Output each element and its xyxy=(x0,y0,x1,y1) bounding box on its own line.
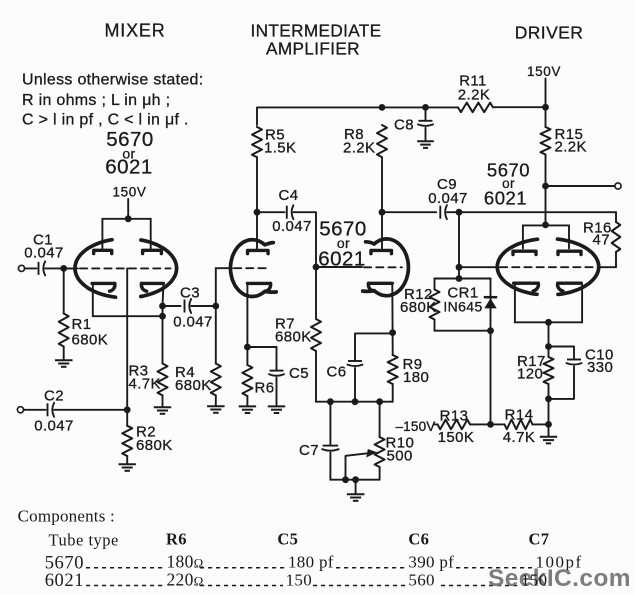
wire C6 to bottom rail xyxy=(354,368,356,402)
svg-text:180Ω: 180Ω xyxy=(167,551,204,571)
wire plate bus V4 xyxy=(523,224,569,226)
resistor R17 xyxy=(544,357,554,384)
node C3/R4/grid junction xyxy=(212,303,219,310)
svg-text:47: 47 xyxy=(593,232,611,249)
wire R3 to ground xyxy=(162,395,164,406)
wire right cathode down xyxy=(162,285,165,306)
svg-text:0.047: 0.047 xyxy=(173,314,213,331)
wire R7 to bottom rail xyxy=(315,351,317,402)
wire grid line V3 entry xyxy=(316,266,362,268)
wire cathode bus V4 xyxy=(515,321,582,323)
capacitor C7 xyxy=(322,446,339,451)
svg-text:2.2K: 2.2K xyxy=(555,139,587,156)
table row 6021 C7 value (behind watermark) xyxy=(521,570,547,589)
svg-text:C8: C8 xyxy=(394,117,414,134)
wiper arrow R10 xyxy=(346,449,377,458)
svg-text:680K: 680K xyxy=(72,332,109,349)
node R14/ground junction xyxy=(545,421,552,428)
label C10 330 xyxy=(585,347,614,377)
label R9 180 xyxy=(403,356,430,386)
label C3 value 0.047 xyxy=(173,285,213,331)
label R7 680K xyxy=(275,316,312,346)
node rail/C8 junction xyxy=(422,104,429,111)
wire C7 drop xyxy=(329,402,331,445)
label C9 value 0.047 xyxy=(428,176,468,207)
wire to right plate V4 xyxy=(568,225,570,248)
tube type label (mixer) 5670 or 6021 xyxy=(105,128,154,179)
label R11 2.2K xyxy=(458,73,490,104)
wire node to R14 xyxy=(491,423,505,425)
wire R11 to 150V node xyxy=(493,106,546,108)
wire bias riser xyxy=(490,331,492,425)
wire to ground (driver) xyxy=(548,424,550,436)
diode CR1 xyxy=(484,279,497,331)
label R6 xyxy=(255,380,275,397)
tube V1 envelope left arc xyxy=(75,240,116,298)
capacitor C2 xyxy=(48,403,55,417)
ground (C8) xyxy=(417,141,434,148)
wire R17 to R14 node xyxy=(548,384,550,424)
section label INTERMEDIATE AMPLIFIER xyxy=(251,21,382,59)
label -150V xyxy=(395,419,435,434)
node C9/rect junction xyxy=(456,275,463,282)
resistor R3 xyxy=(158,364,168,396)
resistor R5 xyxy=(252,127,262,157)
wire cathode to C5 xyxy=(247,346,276,348)
svg-text:C6: C6 xyxy=(327,364,347,381)
wire rect top xyxy=(435,278,491,280)
wire C9 right xyxy=(447,211,459,213)
table row 5670 leader dashes xyxy=(86,567,532,569)
tube V4 envelope right arc xyxy=(558,239,599,294)
cathode V1 left xyxy=(92,283,115,291)
resistor R13 (horizontal) xyxy=(438,420,471,430)
svg-text:C7: C7 xyxy=(529,530,550,549)
svg-text:500: 500 xyxy=(387,448,413,465)
wire plate bus V1 xyxy=(102,218,150,220)
svg-text:680K: 680K xyxy=(136,437,173,454)
svg-text:R6: R6 xyxy=(166,530,187,549)
svg-text:C5: C5 xyxy=(277,530,298,549)
svg-text:C5: C5 xyxy=(289,365,309,382)
node rail/R8 junction xyxy=(379,104,386,111)
label R2 680K xyxy=(136,424,173,455)
capacitor C4 xyxy=(287,205,294,219)
svg-text:680K: 680K xyxy=(175,377,212,394)
input terminal 1 xyxy=(18,265,24,271)
node R5/C4/plate junction xyxy=(254,209,261,216)
ground (R1) xyxy=(55,360,73,367)
svg-text:0.047: 0.047 xyxy=(272,218,312,235)
table row 5670 values xyxy=(45,551,583,573)
svg-text:0.047: 0.047 xyxy=(24,245,64,262)
svg-text:330: 330 xyxy=(587,359,613,376)
node cathode bus junction xyxy=(159,313,166,320)
svg-text:180: 180 xyxy=(403,369,429,386)
capacitor C3 xyxy=(185,299,192,313)
node grid1 junction xyxy=(60,265,67,272)
wire to right plate V1 xyxy=(150,219,152,249)
svg-text:C2: C2 xyxy=(44,388,64,405)
svg-text:Components :: Components : xyxy=(18,507,115,526)
resistor R11 (horizontal) xyxy=(458,103,493,113)
node V3 cathode junction xyxy=(389,329,396,336)
label R10 500 xyxy=(386,435,415,465)
capacitor C9 xyxy=(440,205,447,219)
label C5 xyxy=(289,365,309,382)
plate V4 right xyxy=(558,251,581,254)
wire C10 top branch xyxy=(549,347,575,360)
label C1 value 0.047 xyxy=(24,232,64,262)
node R8/C9 junction xyxy=(379,209,386,216)
svg-text:6021: 6021 xyxy=(45,571,84,591)
svg-text:MIXER: MIXER xyxy=(104,21,165,41)
svg-text:DRIVER: DRIVER xyxy=(515,23,584,43)
cathode V2 xyxy=(247,283,270,291)
wire C5 drop xyxy=(276,347,278,370)
tube type label (intermediate) 5670 or 6021 xyxy=(318,218,367,271)
node V2 cathode junction xyxy=(244,344,251,351)
section label DRIVER xyxy=(515,23,584,43)
grid line V3 (dashed) xyxy=(364,266,402,268)
label 150V (driver supply) xyxy=(527,64,561,79)
resistor R12 xyxy=(430,279,440,331)
svg-text:180 pf: 180 pf xyxy=(288,552,334,571)
node grid2/C2 junction xyxy=(124,406,131,413)
svg-text:150V: 150V xyxy=(113,185,147,200)
cathode V4 left xyxy=(514,283,539,291)
plate V4 left xyxy=(513,251,536,254)
wire V2 cathode down xyxy=(246,285,248,347)
table heading Components: xyxy=(18,507,115,526)
tube V1 envelope right arc xyxy=(141,240,177,297)
wire -150V to R13 xyxy=(434,423,438,425)
svg-text:C > l in pf , C < l in μf .: C > l in pf , C < l in μf . xyxy=(22,112,189,129)
grid line V4 (dashed) xyxy=(500,266,597,268)
label CR1 IN645 xyxy=(443,285,482,315)
node rail/C6 junction xyxy=(352,398,359,405)
node grid V4 junction xyxy=(456,264,463,271)
ground (R10/C7) xyxy=(347,494,365,501)
wire R4 to ground xyxy=(215,395,217,405)
wire R15 to plate node xyxy=(545,155,547,225)
tube V4 envelope left arc xyxy=(497,239,537,294)
wire R2 to ground xyxy=(126,456,128,464)
node rail/R10 junction xyxy=(376,398,383,405)
wire rect bottom xyxy=(435,330,491,332)
wire input2 to C2 xyxy=(24,409,46,411)
label 150V (mixer supply) xyxy=(113,185,147,200)
wire C4 left xyxy=(257,211,285,213)
wire R9 to bottom rail xyxy=(392,384,394,402)
label C8 xyxy=(394,117,414,134)
wire wiper down xyxy=(345,456,347,480)
resistor R1 xyxy=(59,314,69,347)
note: units statement xyxy=(22,72,204,129)
resistor R14 (horizontal) xyxy=(505,420,533,430)
label R12 680K xyxy=(400,286,437,316)
resistor R6 xyxy=(242,365,252,396)
wire C3 right xyxy=(191,305,216,307)
wire R5 to plate V2 xyxy=(256,157,258,248)
grid line V2 (dashed) xyxy=(234,267,270,269)
table column header C6 xyxy=(408,530,429,549)
table column header Tube type xyxy=(49,531,119,550)
tube type label (driver) 5670 or 6021 xyxy=(484,160,530,209)
wire grid riser V4 xyxy=(458,212,460,278)
wire V3 cathode down xyxy=(391,285,393,333)
svg-text:R14: R14 xyxy=(505,407,534,424)
plate V2 xyxy=(248,250,268,253)
node 150V/R11 junction xyxy=(542,104,549,111)
potentiometer R10 xyxy=(375,437,385,467)
capacitor C10 xyxy=(567,360,582,365)
wire left cathode down xyxy=(92,285,94,316)
label R14 4.7K xyxy=(503,407,535,447)
wire grid entry V2 xyxy=(216,267,232,269)
wire C9 left xyxy=(382,211,436,213)
svg-text:IN645: IN645 xyxy=(443,299,482,315)
svg-text:6021: 6021 xyxy=(484,188,527,209)
label R13 150K xyxy=(438,408,475,447)
svg-text:INTERMEDIATE: INTERMEDIATE xyxy=(251,21,382,41)
svg-text:R1: R1 xyxy=(72,316,92,333)
wire grid2 vertical xyxy=(126,268,128,409)
wire R10 bottom xyxy=(379,467,381,480)
resistor R9 xyxy=(388,355,398,384)
label R17 120 xyxy=(517,353,546,383)
wire 150V drop xyxy=(127,199,129,219)
node R13/R14/CR1 junction xyxy=(487,421,494,428)
node plate junction V4 xyxy=(542,222,549,229)
label R8 2.2K xyxy=(343,126,375,157)
svg-text:0.047: 0.047 xyxy=(428,190,468,207)
label R1 680K xyxy=(72,316,109,349)
svg-text:2.2K: 2.2K xyxy=(343,140,375,157)
svg-text:R in ohms ; L in μh ;: R in ohms ; L in μh ; xyxy=(22,92,170,109)
resistor R15 xyxy=(541,127,551,155)
label R15 2.2K xyxy=(555,126,587,156)
wire C4 to grid V3 xyxy=(294,212,317,267)
wire junction to R3 xyxy=(162,306,164,364)
node wiper/bottom junction xyxy=(342,476,349,483)
svg-text:2.2K: 2.2K xyxy=(458,87,490,104)
node output junction xyxy=(542,183,549,190)
wire R6 to ground xyxy=(246,396,248,406)
ground (R6) xyxy=(239,406,256,413)
resistor R7 xyxy=(311,319,321,351)
svg-text:1.5K: 1.5K xyxy=(264,140,296,157)
plate V1 left xyxy=(94,250,112,253)
ground (R2) xyxy=(119,464,136,471)
node rail/C7 junction xyxy=(327,398,334,405)
svg-text:R6: R6 xyxy=(255,380,275,397)
svg-text:C6: C6 xyxy=(408,530,429,549)
wire pot bottom rail xyxy=(330,479,379,481)
capacitor C1 xyxy=(39,261,46,275)
ground (R3) xyxy=(154,407,171,414)
label C4 value 0.047 xyxy=(272,187,312,235)
wire junction to R6 xyxy=(246,347,248,365)
label R5 1.5K xyxy=(264,127,296,157)
svg-text:4.7K: 4.7K xyxy=(129,376,161,393)
wire top rail xyxy=(257,107,458,125)
wire C7 to bottom xyxy=(329,453,331,480)
plate V1 right xyxy=(143,250,162,253)
wire junction to R4 xyxy=(215,306,217,364)
wire C8 to ground xyxy=(425,128,427,141)
svg-text:390 pf: 390 pf xyxy=(408,552,454,571)
svg-text:SeekIC.com: SeekIC.com xyxy=(488,565,631,592)
svg-text:C7: C7 xyxy=(299,442,319,459)
table column header C7 xyxy=(529,530,550,549)
wire input1 to C1 xyxy=(25,267,37,269)
wire R14 to cathode node xyxy=(533,423,549,425)
wire grid node down to R1 xyxy=(63,268,65,313)
svg-text:–150V: –150V xyxy=(395,419,435,434)
wire bottom rail xyxy=(316,401,393,403)
wire V4 left cathode down xyxy=(514,285,516,323)
resistor R2 xyxy=(122,426,132,456)
wire C1 to grid node xyxy=(45,267,75,269)
label R4 680K xyxy=(175,364,212,394)
plate V3 xyxy=(371,250,392,253)
node plate supply junction V1 xyxy=(125,215,132,222)
wire R10 drop xyxy=(379,402,381,437)
wire R16 top xyxy=(615,212,617,222)
node grid V3 junction xyxy=(313,264,320,271)
wire R8 to plate V3 xyxy=(381,157,383,248)
svg-text:C4: C4 xyxy=(279,187,299,204)
table row 6021 values xyxy=(45,569,435,591)
table row 6021 leader dashes xyxy=(86,585,518,587)
label R16 47 xyxy=(583,220,612,249)
capacitor C5 xyxy=(269,371,284,376)
wire cathode to C6 xyxy=(355,333,393,360)
wire R13 to node xyxy=(470,423,491,425)
label C7 xyxy=(299,442,319,459)
cathode V1 right xyxy=(141,283,163,291)
wire grid V1 solid xyxy=(64,267,78,269)
ground (driver cathode) xyxy=(540,437,557,444)
output terminal xyxy=(615,183,621,189)
resistor R16 xyxy=(612,222,621,252)
svg-text:6021: 6021 xyxy=(105,156,153,179)
svg-text:560: 560 xyxy=(408,570,434,589)
section label MIXER xyxy=(104,21,165,41)
svg-text:0.047: 0.047 xyxy=(34,418,74,435)
node R17/C10 top junction xyxy=(545,343,552,350)
wire cathode bus V1 xyxy=(93,315,163,317)
resistor R8 xyxy=(377,125,387,157)
wire grid V3 to R7 xyxy=(315,267,317,319)
node cathode/C3 junction xyxy=(159,303,166,310)
ground (R4) xyxy=(207,406,225,413)
cathode V4 right xyxy=(558,283,582,291)
svg-text:150V: 150V xyxy=(527,64,561,79)
wire C5 to ground xyxy=(276,378,278,406)
ground (C5) xyxy=(268,406,285,413)
wire to left plate V4 xyxy=(522,225,524,248)
label R3 4.7K xyxy=(129,363,161,393)
svg-text:R13: R13 xyxy=(440,408,469,425)
wire cathode to R17 xyxy=(548,322,550,357)
svg-text:680K: 680K xyxy=(275,329,312,346)
watermark SeekIC.com xyxy=(488,565,631,592)
wire C10 bottom branch xyxy=(549,367,575,399)
wire 150V drop (driver) xyxy=(545,79,547,108)
wire C2 to grid2 line xyxy=(54,409,127,411)
node CR1/bias junction xyxy=(487,327,494,334)
node ground stem junction xyxy=(352,476,359,483)
svg-text:150: 150 xyxy=(521,570,547,589)
grid line V1 (dashed) xyxy=(80,267,171,269)
wire junction to R2 xyxy=(126,410,128,426)
wire to left plate V1 xyxy=(101,219,103,249)
wire grid bus to R16 xyxy=(459,211,616,213)
input terminal 2 xyxy=(17,407,23,413)
tube V2 envelope xyxy=(231,240,277,297)
wire R16 to grid right xyxy=(599,252,617,267)
svg-text:150K: 150K xyxy=(438,429,475,446)
svg-text:220Ω: 220Ω xyxy=(167,569,204,589)
svg-text:680K: 680K xyxy=(400,299,437,316)
capacitor C6 xyxy=(348,361,363,366)
wire grid V4 solid left xyxy=(459,266,499,268)
wire to ground (pot) xyxy=(355,480,357,494)
wire grid riser V2 xyxy=(215,268,217,306)
svg-text:Unless otherwise stated:: Unless otherwise stated: xyxy=(22,72,204,89)
wire V4 right cathode down xyxy=(581,285,583,323)
svg-text:AMPLIFIER: AMPLIFIER xyxy=(266,39,360,59)
label C6 xyxy=(327,364,347,381)
node C9/grid junction xyxy=(456,209,463,216)
cathode V3 xyxy=(368,283,392,291)
svg-text:4.7K: 4.7K xyxy=(503,429,535,446)
wire R1 to ground xyxy=(63,347,65,360)
svg-text:C3: C3 xyxy=(180,285,200,302)
svg-text:120: 120 xyxy=(517,366,543,383)
node cathode junction V4 xyxy=(545,319,552,326)
wire output xyxy=(546,185,615,187)
wire C8 drop xyxy=(425,107,427,119)
table column header R6 xyxy=(166,530,187,549)
capacitor C8 xyxy=(418,121,433,126)
wire C3 left xyxy=(163,305,181,307)
svg-text:Tube type: Tube type xyxy=(49,531,119,550)
table column header C5 xyxy=(277,530,298,549)
label C2 value 0.047 xyxy=(34,388,74,435)
wire to R15 xyxy=(545,107,547,127)
tube V3 envelope xyxy=(363,239,409,296)
resistor R4 xyxy=(211,364,221,396)
svg-text:150: 150 xyxy=(286,570,312,589)
node R17/C10 bottom junction xyxy=(545,396,552,403)
wire junction to R9 xyxy=(392,333,394,355)
